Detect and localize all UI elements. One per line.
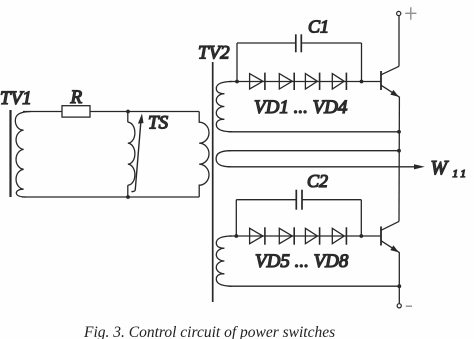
wire: C1 left vertical — [236, 43, 238, 82]
transistor T2 (bottom) — [381, 221, 400, 252]
wire: node to TV2 primary — [128, 111, 199, 113]
node: emitter junction — [397, 284, 401, 288]
wire: junction to minus terminal — [398, 286, 400, 303]
base bar — [380, 227, 382, 246]
svg-text:TV1: TV1 — [0, 88, 32, 109]
diode VD7 — [305, 227, 319, 244]
capacitor C1 branch — [237, 34, 362, 81]
svg-text:VD5 ... VD8: VD5 ... VD8 — [255, 251, 349, 272]
terminal plus circle — [397, 11, 401, 15]
TV2 secondary winding w11 (middle, single turn) — [216, 151, 231, 167]
base bar — [380, 71, 382, 90]
plus sign — [405, 7, 416, 19]
diode VD6 — [279, 227, 294, 244]
collector — [381, 221, 399, 230]
wire: top wire TV1 to resistor — [23, 111, 62, 113]
transformer TV1 core — [9, 110, 11, 197]
wire: C1 top right — [301, 42, 361, 44]
svg-text:C1: C1 — [308, 17, 329, 37]
capacitor C2 — [295, 190, 297, 210]
wire: w1 bottom to rail — [229, 131, 399, 133]
collector — [381, 66, 399, 75]
saturable reactor TS winding — [128, 112, 135, 198]
wire: resistor to node — [90, 111, 128, 113]
wire: w1 top to base T1 with diode chain — [229, 81, 381, 83]
transformer TV1 winding — [15, 112, 31, 198]
diode VD8 — [332, 227, 346, 244]
svg-text:TV2: TV2 — [198, 43, 230, 64]
diode VD1 — [250, 73, 265, 90]
TV2 secondary winding w2 (bottom) — [216, 236, 232, 286]
transformer TV2 primary winding — [199, 112, 209, 198]
diode VD3 — [305, 73, 319, 90]
resistor R — [62, 106, 90, 117]
wire: C2 right vertical — [360, 200, 362, 236]
terminal minus circle — [397, 304, 401, 308]
wire: rail emitter T1 to collector T2 — [398, 97, 400, 221]
emitter arrow — [390, 245, 399, 252]
diode VD2 — [279, 73, 294, 90]
node: w1 bottom on rail — [397, 130, 401, 134]
capacitor C2 branch — [236, 190, 361, 236]
transformer TV2 core — [212, 62, 214, 302]
node: junction bottom of TS — [126, 195, 130, 199]
wire: w2 bottom to emitter junction — [229, 285, 399, 287]
emitter — [381, 241, 400, 253]
node: w11 top on rail — [397, 149, 401, 153]
wire: C1 right vertical — [361, 43, 363, 82]
arrowhead W11 — [414, 164, 425, 169]
emitter — [381, 85, 400, 97]
diode VD5 — [250, 227, 265, 244]
capacitor C1 — [295, 34, 297, 52]
wire: w2 top to base T2 with diode chain — [229, 235, 381, 237]
caption Fig. 3 — [84, 324, 335, 339]
wire: C2 top left — [236, 199, 296, 201]
svg-text:VD1 ... VD4: VD1 ... VD4 — [254, 97, 348, 118]
svg-text:11: 11 — [453, 168, 470, 180]
svg-text:C2: C2 — [307, 171, 328, 191]
wire: C2 left vertical — [235, 200, 237, 236]
wire: w11 bottom to W11 terminal (crosses rail) — [228, 166, 418, 168]
wire: w11 top to rail — [228, 150, 399, 152]
svg-text:W: W — [431, 157, 450, 179]
node: C2 right / base T2 — [359, 234, 363, 238]
wire: collector T1 to plus terminal — [398, 16, 400, 67]
svg-text:TS: TS — [148, 112, 169, 133]
node: C2 left on diode wire — [234, 234, 238, 238]
node: junction top of TS — [126, 110, 130, 114]
node: C1 left on diode wire — [235, 80, 239, 84]
diode VD4 — [332, 73, 346, 90]
node: C1 right / base T1 — [360, 80, 364, 84]
wire: C1 top left — [237, 42, 296, 44]
arrow through TS — [131, 114, 143, 192]
transistor T1 (top) — [381, 66, 400, 97]
emitter arrow — [390, 90, 399, 97]
TV2 secondary winding w1 (top) — [216, 82, 232, 132]
wire: emitter T2 down to junction — [398, 252, 400, 286]
wire: bottom wire of left loop — [22, 196, 199, 198]
wire: C2 top right — [302, 199, 361, 201]
svg-text:R: R — [70, 87, 83, 108]
minus sign — [406, 305, 412, 307]
